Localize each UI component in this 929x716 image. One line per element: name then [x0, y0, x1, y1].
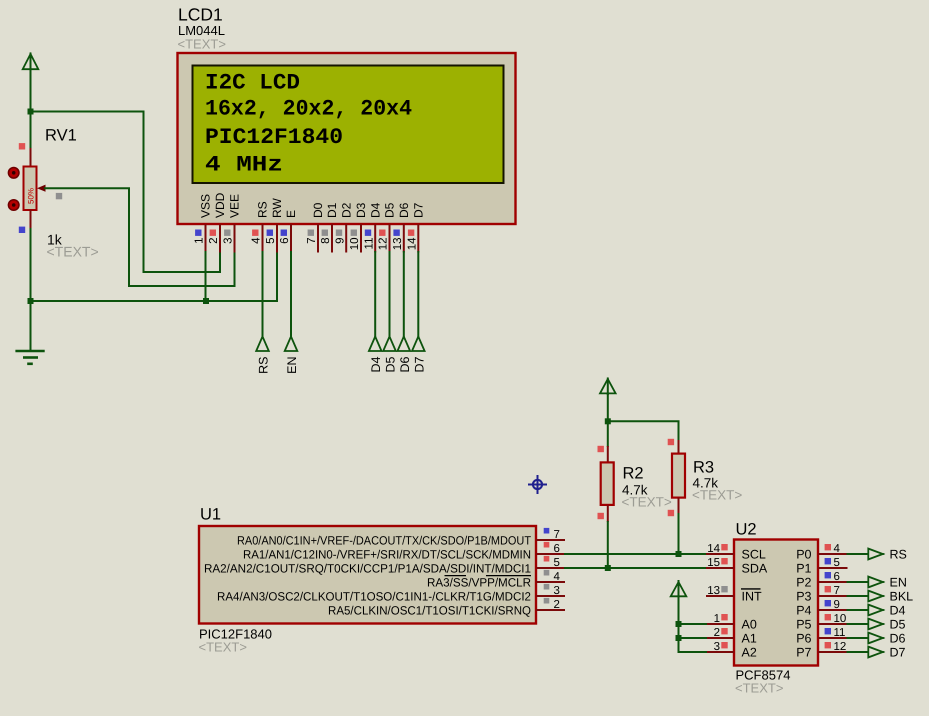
- svg-text:RS: RS: [257, 357, 271, 374]
- U2 pin-name P7: [796, 645, 811, 659]
- svg-text:4: 4: [251, 237, 263, 244]
- power terminal +5V (top left): [23, 53, 39, 71]
- terminal label EN: [890, 576, 907, 590]
- LCD pin label D5: [383, 202, 397, 218]
- wire VSS pin1 to ground bus: [205, 251, 207, 301]
- svg-text:10: 10: [349, 238, 361, 251]
- U1 pin-name text row y=568: [204, 561, 531, 575]
- U2 pin number 7: [834, 585, 840, 597]
- label R2: [623, 465, 644, 483]
- pin marker square U2 pin 1: [721, 614, 727, 620]
- wire R3 bottom to SCL net: [678, 513, 680, 554]
- pin marker square U2 pin 5: [825, 558, 831, 564]
- svg-text:P1: P1: [796, 561, 811, 575]
- LCD pin 2 stub: [219, 224, 221, 253]
- pin marker square LCD pin 3: [224, 230, 230, 236]
- svg-text:D5: D5: [384, 356, 398, 372]
- svg-text:RA5/CLKIN/OSC1/T1OSI/T1CKI/SRN: RA5/CLKIN/OSC1/T1OSI/T1CKI/SRNQ: [328, 603, 531, 617]
- resistor R2 top lead: [607, 446, 609, 463]
- U2 pin 15 (SDA) stub: [706, 567, 734, 569]
- svg-text:12: 12: [834, 641, 847, 653]
- U2 pin 7 (P3) stub: [818, 595, 848, 597]
- U1 pin number 5: [554, 557, 560, 569]
- LCD pin 7 stub: [317, 224, 319, 253]
- origin marker (blue crosshair): [528, 475, 547, 494]
- label LCD1 reference: [178, 5, 223, 25]
- U2 pin 9 (P4) stub: [818, 609, 848, 611]
- LCD pin label D6: [397, 202, 411, 218]
- property label &lt;TEXT&gt; of R3: [692, 488, 742, 503]
- wire SCL net U1 pin6 to U2 pin14: [564, 553, 707, 555]
- pin marker square LCD pin 9: [336, 230, 342, 236]
- value label 4.7k (R3): [693, 476, 719, 491]
- svg-text:RA0/AN0/C1IN+/VREF-/DACOUT/TX/: RA0/AN0/C1IN+/VREF-/DACOUT/TX/CK/SDO/P1B…: [237, 533, 532, 547]
- LCD pin 14 stub: [417, 224, 419, 253]
- svg-text:6: 6: [554, 543, 560, 555]
- LCD screen text line 3: PIC12F1840: [205, 125, 343, 150]
- svg-text:7: 7: [834, 585, 840, 597]
- svg-text:INT: INT: [742, 589, 763, 603]
- LCD pin label D3: [354, 202, 368, 218]
- svg-text:5: 5: [265, 238, 277, 244]
- U2 pin-name P3: [796, 589, 811, 603]
- pin marker square U1 pin 5: [544, 556, 550, 562]
- pin marker square LCD pin 2: [210, 230, 216, 236]
- LCD pin label D0: [311, 202, 325, 218]
- terminal RS (right arrow): [868, 549, 884, 560]
- svg-text:2: 2: [714, 627, 720, 639]
- pin marker square RV1 wiper (gray): [56, 193, 62, 199]
- label U2 reference: [736, 521, 757, 539]
- svg-text:P7: P7: [796, 645, 811, 659]
- wire U2 to terminal RS: [847, 553, 870, 555]
- svg-text:D7: D7: [890, 646, 906, 660]
- LCD pin 6 stub: [290, 224, 292, 253]
- svg-text:1: 1: [714, 613, 720, 625]
- U2 pin-name SCL: [742, 547, 766, 561]
- wire LCD pin 12 down to D5 terminal: [389, 251, 391, 338]
- pin marker square LCD pin 8: [322, 230, 328, 236]
- wire A1 to U2: [679, 637, 708, 639]
- LCD pin 13 stub: [403, 224, 405, 253]
- pin marker square U1 pin 2: [544, 598, 550, 604]
- U2 pin number 11: [834, 627, 846, 639]
- svg-text:10: 10: [834, 613, 847, 625]
- svg-text:RS: RS: [890, 548, 907, 562]
- LCD pin 5 stub: [276, 224, 278, 253]
- pin marker square LCD pin 7: [308, 230, 314, 236]
- terminal label BKL: [890, 590, 914, 604]
- wire RS pin4 down to RS terminal: [262, 251, 264, 338]
- terminal D4 (up triangle): [369, 337, 382, 352]
- potentiometer RV1 bottom lead pin 2: [30, 210, 32, 229]
- terminal label D5: [384, 356, 398, 372]
- label R3: [693, 459, 714, 477]
- U1 pin-name text row y=610: [328, 603, 531, 617]
- terminal D6 (right arrow): [868, 633, 884, 644]
- node junction R2 on SDA: [605, 565, 611, 571]
- svg-text:P5: P5: [796, 617, 811, 631]
- node junction R2/R3 top: [605, 418, 611, 424]
- LCD pin number 12: [378, 238, 390, 251]
- svg-text:D4: D4: [890, 604, 906, 618]
- LCD pin number 2: [208, 238, 220, 244]
- LCD pin label D1: [325, 202, 339, 218]
- U1 pin 7 stub: [536, 539, 565, 541]
- LCD pin number 3: [223, 238, 235, 244]
- terminal D5 (right arrow): [868, 619, 884, 630]
- svg-text:A0: A0: [742, 617, 757, 631]
- terminal label D4: [890, 604, 906, 618]
- U1 pin 2 stub: [536, 609, 565, 611]
- pin marker square LCD pin 14: [408, 230, 414, 236]
- U1 pin number 2: [554, 599, 560, 611]
- svg-text:11: 11: [363, 238, 375, 250]
- U2 pin-name A0: [742, 617, 757, 631]
- wire R2 bottom to SDA net: [607, 521, 609, 568]
- svg-text:2: 2: [554, 599, 560, 611]
- pin marker square LCD pin 4: [252, 230, 258, 236]
- svg-text:P4: P4: [796, 603, 811, 617]
- svg-text:BKL: BKL: [890, 590, 914, 604]
- value label 4.7k (R2): [622, 483, 648, 498]
- pin marker square LCD pin 12: [379, 230, 385, 236]
- U2 pin 5 (P1) stub: [818, 567, 848, 569]
- svg-text:16x2, 20x2, 20x4: 16x2, 20x2, 20x4: [205, 97, 412, 122]
- pin marker square U2 pin 11: [825, 628, 831, 634]
- svg-text:<TEXT>: <TEXT>: [735, 681, 783, 696]
- label PIC12F1840: [199, 627, 272, 642]
- pin marker square R3 pin1 (red): [668, 439, 674, 445]
- LCD pin label D7: [412, 202, 426, 218]
- LCD pin number 10: [349, 238, 361, 251]
- terminal label D6: [398, 356, 412, 372]
- node junction A1: [676, 635, 682, 641]
- U1 pin 5 stub: [536, 567, 565, 569]
- U2 pin-name P4: [796, 603, 811, 617]
- svg-text:13: 13: [707, 585, 720, 597]
- wire U2 to terminal D5: [847, 623, 870, 625]
- power terminal +5V (A0-A2 rail): [671, 580, 687, 600]
- svg-text:P2: P2: [796, 575, 811, 589]
- pin marker square U1 pin 4: [544, 570, 550, 576]
- wire U2 to terminal BKL: [847, 595, 870, 597]
- U2 pin 11 (P6) stub: [818, 637, 848, 639]
- LCD screen text line 4: 4 MHz: [205, 153, 283, 178]
- pin marker square LCD pin 5: [267, 230, 273, 236]
- U1 pin number 3: [554, 585, 560, 597]
- terminal D6 (up triangle): [398, 337, 411, 352]
- svg-text:VSS: VSS: [199, 194, 213, 218]
- wire LCD pin 14 down to D7 terminal: [417, 251, 419, 338]
- svg-text:4: 4: [554, 571, 561, 583]
- svg-text:RA2/AN2/C1OUT/SRQ/T0CKI/CCP1/P: RA2/AN2/C1OUT/SRQ/T0CKI/CCP1/P1A/SDA/SDI…: [204, 561, 531, 575]
- svg-text:RA1/AN1/C12IN0-/VREF+/SRI/RX/D: RA1/AN1/C12IN0-/VREF+/SRI/RX/DT/SCL/SCK/…: [243, 547, 531, 561]
- LCD screen text line 2: 16x2, 20x2, 20x4: [205, 97, 412, 122]
- terminal label RS: [890, 548, 907, 562]
- wire ground bus to LCD RW pin 5: [31, 252, 278, 301]
- svg-text:D6: D6: [890, 632, 906, 646]
- wire VDD net: junction right/down to LCD pin 2: [31, 112, 221, 273]
- LCD pin number 11: [363, 238, 375, 250]
- svg-text:6: 6: [834, 571, 840, 583]
- pin marker square R3 pin2 (red): [668, 510, 674, 516]
- property label &lt;TEXT&gt; of U1: [199, 640, 247, 655]
- pin marker square RV1 pin1 (red): [19, 143, 25, 149]
- terminal EN (right arrow): [868, 577, 884, 588]
- svg-text:D3: D3: [354, 202, 368, 218]
- U1 pin number 7: [554, 529, 560, 541]
- svg-text:R2: R2: [623, 465, 644, 483]
- svg-text:D4: D4: [369, 356, 383, 372]
- U2 pin-name A1: [742, 631, 757, 645]
- svg-text:8: 8: [320, 238, 332, 244]
- svg-text:D7: D7: [412, 202, 426, 218]
- pin marker square U2 pin 10: [825, 614, 831, 620]
- wire A0 to U2: [679, 623, 708, 625]
- pin marker square U2 pin 15: [721, 558, 727, 564]
- svg-text:7: 7: [306, 238, 318, 244]
- svg-text:5: 5: [554, 557, 560, 569]
- pin marker square U1 pin 3: [544, 584, 550, 590]
- svg-text:14: 14: [707, 543, 720, 555]
- pin marker square LCD pin 11: [365, 230, 371, 236]
- svg-text:D4: D4: [368, 202, 382, 218]
- svg-text:<TEXT>: <TEXT>: [178, 37, 226, 52]
- LCD pin 3 stub: [234, 224, 236, 253]
- U1 pin 4 stub: [536, 581, 565, 583]
- U2 pin number 15: [707, 557, 720, 569]
- wire RV1 wiper to VEE: right,down,right,up to LCD pin 3: [44, 188, 235, 286]
- svg-text:LCD1: LCD1: [178, 5, 223, 25]
- resistor R3 top lead: [678, 440, 680, 455]
- terminal D7 (right arrow): [868, 647, 884, 658]
- U1 pin number 4: [554, 571, 561, 583]
- LCD pin label RW: [270, 198, 284, 218]
- LCD pin 12 stub: [389, 224, 391, 253]
- svg-text:3: 3: [554, 585, 560, 597]
- U2 pin 13 (INT) stub: [706, 595, 734, 597]
- U2 pin 3 (A2) stub: [706, 651, 734, 653]
- svg-text:<TEXT>: <TEXT>: [47, 244, 99, 260]
- property label &lt;TEXT&gt; of U2: [735, 681, 783, 696]
- svg-text:<TEXT>: <TEXT>: [199, 640, 247, 655]
- label RV1: [45, 127, 77, 145]
- pin marker square U2 pin 13: [721, 586, 727, 592]
- pin marker square LCD pin 13: [393, 230, 399, 236]
- svg-text:3: 3: [714, 641, 720, 653]
- IC U1 PIC12F1840 body: [199, 526, 536, 624]
- U2 pin 2 (A1) stub: [706, 637, 734, 639]
- LCD pin label RS: [256, 201, 270, 218]
- LCD pin number 13: [392, 238, 404, 251]
- pin marker square U2 pin 12: [825, 642, 831, 648]
- svg-text:50%: 50%: [27, 188, 36, 204]
- LCD pin 10 stub: [360, 224, 362, 253]
- terminal label D7: [890, 646, 906, 660]
- potentiometer RV1 50% value text: [27, 188, 36, 204]
- U2 pin number 2: [714, 627, 720, 639]
- svg-text:<TEXT>: <TEXT>: [692, 488, 742, 503]
- svg-text:I2C LCD: I2C LCD: [205, 71, 300, 96]
- svg-text:9: 9: [834, 599, 840, 611]
- svg-text:7: 7: [554, 529, 560, 541]
- LCD pin 1 stub: [205, 224, 207, 253]
- svg-text:P6: P6: [796, 631, 811, 645]
- svg-text:15: 15: [707, 557, 720, 569]
- svg-text:P3: P3: [796, 589, 811, 603]
- U2 pin-name P2: [796, 575, 811, 589]
- pin marker square U2 pin 6: [825, 572, 831, 578]
- label LM044L model: [178, 23, 225, 38]
- LCD pin label VEE: [228, 194, 242, 218]
- pin marker square U1 pin 7: [544, 528, 550, 534]
- pin marker square U2 pin 3: [721, 642, 727, 648]
- wire power to RV1 top: [30, 68, 32, 148]
- pin marker square U2 pin 7: [825, 586, 831, 592]
- svg-text:U1: U1: [200, 506, 221, 524]
- value label 1k: [47, 232, 63, 248]
- U1 overline MCLR: [486, 575, 531, 577]
- svg-text:P0: P0: [796, 547, 811, 561]
- LCD pin number 6: [279, 238, 291, 244]
- terminal EN (up triangle): [285, 337, 298, 352]
- svg-text:SDA: SDA: [742, 561, 768, 575]
- LCD pin label D4: [368, 202, 382, 218]
- svg-text:5: 5: [834, 557, 840, 569]
- wire A2 to U2: [679, 651, 708, 652]
- svg-text:EN: EN: [285, 357, 299, 374]
- pin marker square U2 pin 14: [721, 544, 727, 550]
- terminal RS (up triangle): [256, 337, 269, 352]
- LCD pin label VDD: [213, 192, 227, 218]
- svg-text:RA4/AN3/OSC2/CLKOUT/T1OSO/C1IN: RA4/AN3/OSC2/CLKOUT/T1OSO/C1IN1-/CLKR/T1…: [217, 589, 531, 603]
- U2 pin number 1: [714, 613, 720, 625]
- svg-text:RS: RS: [256, 201, 270, 218]
- U2 pin 4 (P0) stub: [818, 553, 848, 555]
- wire RV1 bottom to ground bus: [30, 228, 32, 301]
- U1 overline SS: [445, 575, 467, 577]
- terminal D4 (right arrow): [868, 605, 884, 616]
- resistor R2 body: [601, 462, 614, 505]
- svg-text:14: 14: [407, 237, 419, 250]
- U1 pin 6 stub: [536, 553, 565, 555]
- svg-text:11: 11: [834, 627, 846, 639]
- node junction A0: [676, 621, 682, 627]
- wire U2 to terminal D4: [847, 609, 870, 611]
- svg-text:R3: R3: [693, 459, 714, 477]
- U2 pin-name P0: [796, 547, 811, 561]
- LCD pin number 14: [407, 237, 419, 250]
- IC U2 PCF8574 body: [734, 540, 818, 666]
- wire U2 to terminal EN: [847, 581, 870, 583]
- svg-text:D1: D1: [325, 202, 339, 218]
- wire junction to R3 top: [608, 421, 679, 441]
- U1 pin-name text row y=582: [427, 575, 531, 589]
- svg-text:4: 4: [834, 543, 841, 555]
- U2 pin 12 (P7) stub: [818, 651, 848, 653]
- U2 pin number 12: [834, 641, 847, 653]
- U1 pin-name text row y=554: [243, 547, 531, 561]
- svg-text:4 MHz: 4 MHz: [205, 153, 283, 178]
- U2 pin number 5: [834, 557, 840, 569]
- wire E pin6 down to EN terminal: [290, 251, 292, 338]
- U1 pin number 6: [554, 543, 560, 555]
- node junction VSS joins ground bus: [203, 298, 209, 304]
- svg-text:D6: D6: [398, 356, 412, 372]
- U1 pin 3 stub: [536, 595, 565, 597]
- svg-text:6: 6: [279, 238, 291, 244]
- svg-text:3: 3: [223, 238, 235, 244]
- wire LCD pin 11 down to D4 terminal: [374, 251, 376, 338]
- svg-text:EN: EN: [890, 576, 907, 590]
- U2 pin-name P1: [796, 561, 811, 575]
- svg-text:<TEXT>: <TEXT>: [622, 495, 672, 510]
- wire ground stem: [30, 300, 32, 351]
- U2 pin-name P6: [796, 631, 811, 645]
- pin marker square U1 pin 6: [544, 542, 550, 548]
- U1 pin-name text row y=596: [217, 589, 531, 603]
- pin marker square U2 pin 4: [825, 544, 831, 550]
- svg-text:D5: D5: [383, 202, 397, 218]
- terminal D7 (up triangle): [412, 337, 425, 352]
- wire U2 to terminal D7: [847, 651, 870, 653]
- U1 pin-name text row y=540: [237, 533, 532, 547]
- wire LCD pin 13 down to D6 terminal: [403, 251, 405, 338]
- U2 pin number 14: [707, 543, 720, 555]
- svg-text:D0: D0: [311, 202, 325, 218]
- terminal BKL (right arrow): [868, 591, 884, 602]
- LCD pin number 5: [265, 238, 277, 244]
- power terminal +5V (above R2): [600, 378, 616, 396]
- U2 pin 10 (P5) stub: [818, 623, 848, 625]
- svg-text:E: E: [284, 210, 298, 218]
- pin marker square LCD pin 6: [281, 230, 287, 236]
- property label &lt;TEXT&gt; of RV1: [47, 244, 99, 260]
- terminal label D4: [369, 356, 383, 372]
- LCD pin number 9: [334, 238, 346, 244]
- svg-text:13: 13: [392, 238, 404, 251]
- svg-text:2: 2: [208, 238, 220, 244]
- ground symbol: [15, 351, 44, 364]
- LCD pin label D2: [339, 202, 353, 218]
- wire A-rail vertical: [678, 598, 680, 652]
- LCD pin 4 stub: [262, 224, 264, 253]
- pin marker square R2 pin1 (red): [598, 446, 604, 452]
- potentiometer RV1 wiper arrow: [37, 185, 46, 192]
- LCD pin number 8: [320, 238, 332, 244]
- label PCF8574: [736, 668, 791, 683]
- resistor R3 bottom lead: [678, 498, 680, 515]
- LCD pin 11 stub: [374, 224, 376, 253]
- LCD screen text line 1: I2C LCD: [205, 71, 300, 96]
- property label &lt;TEXT&gt; of R2: [622, 495, 672, 510]
- node junction R3 on SCL: [676, 551, 682, 557]
- pin marker square U2 pin 2: [721, 628, 727, 634]
- wire U2 to terminal D6: [847, 637, 870, 639]
- LCD screen: [193, 66, 504, 184]
- node junction VDD branch: [28, 109, 34, 115]
- svg-text:D6: D6: [397, 202, 411, 218]
- wire junction to R2 top: [607, 421, 609, 447]
- wire power to R2/R3 junction: [607, 393, 609, 422]
- LCD pin 9 stub: [345, 224, 347, 253]
- resistor R3 body: [672, 454, 685, 498]
- potentiometer RV1 terminal circle top: [8, 168, 19, 179]
- potentiometer RV1 terminal circle bottom: [8, 200, 19, 211]
- U2 overline INT: [741, 588, 761, 590]
- terminal label D7: [412, 356, 426, 372]
